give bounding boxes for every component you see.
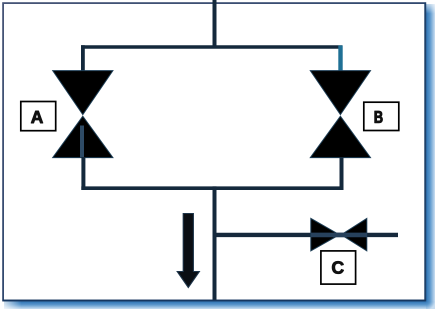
valve A upper triangle xyxy=(53,71,113,115)
wire: top horizontal header pipe xyxy=(81,45,342,49)
valve B lower triangle xyxy=(310,116,370,157)
label box B xyxy=(364,102,399,130)
valve C right triangle xyxy=(341,218,367,251)
valve A lower triangle xyxy=(53,116,113,157)
valve C pipe highlight over triangles xyxy=(311,233,367,238)
valve A xyxy=(53,71,113,158)
flow arrow down xyxy=(177,214,199,288)
wire: branch to valve C xyxy=(215,233,399,237)
wire: left drop to valve A xyxy=(81,45,85,71)
blue glow bottom xyxy=(4,301,426,309)
border right dark edge xyxy=(424,3,426,301)
valve A stem over triangle xyxy=(80,126,84,158)
wire: valve B outlet down xyxy=(340,157,344,190)
valve C left triangle xyxy=(311,218,340,251)
wire: bottom horizontal return pipe xyxy=(81,186,343,190)
border bottom dark edge xyxy=(3,300,426,302)
wire: valve A outlet down xyxy=(81,157,85,190)
blue glow right xyxy=(426,4,435,302)
wire: top vertical inlet pipe xyxy=(213,0,217,48)
valve B xyxy=(310,71,370,158)
valve C xyxy=(311,218,367,251)
wire: center vertical outlet pipe xyxy=(213,186,217,299)
label box A xyxy=(21,102,56,131)
valve B upper triangle xyxy=(310,71,370,115)
blue glow corner xyxy=(426,301,435,309)
label box C xyxy=(321,251,356,284)
wire: right drop to valve B (teal) xyxy=(338,45,342,71)
